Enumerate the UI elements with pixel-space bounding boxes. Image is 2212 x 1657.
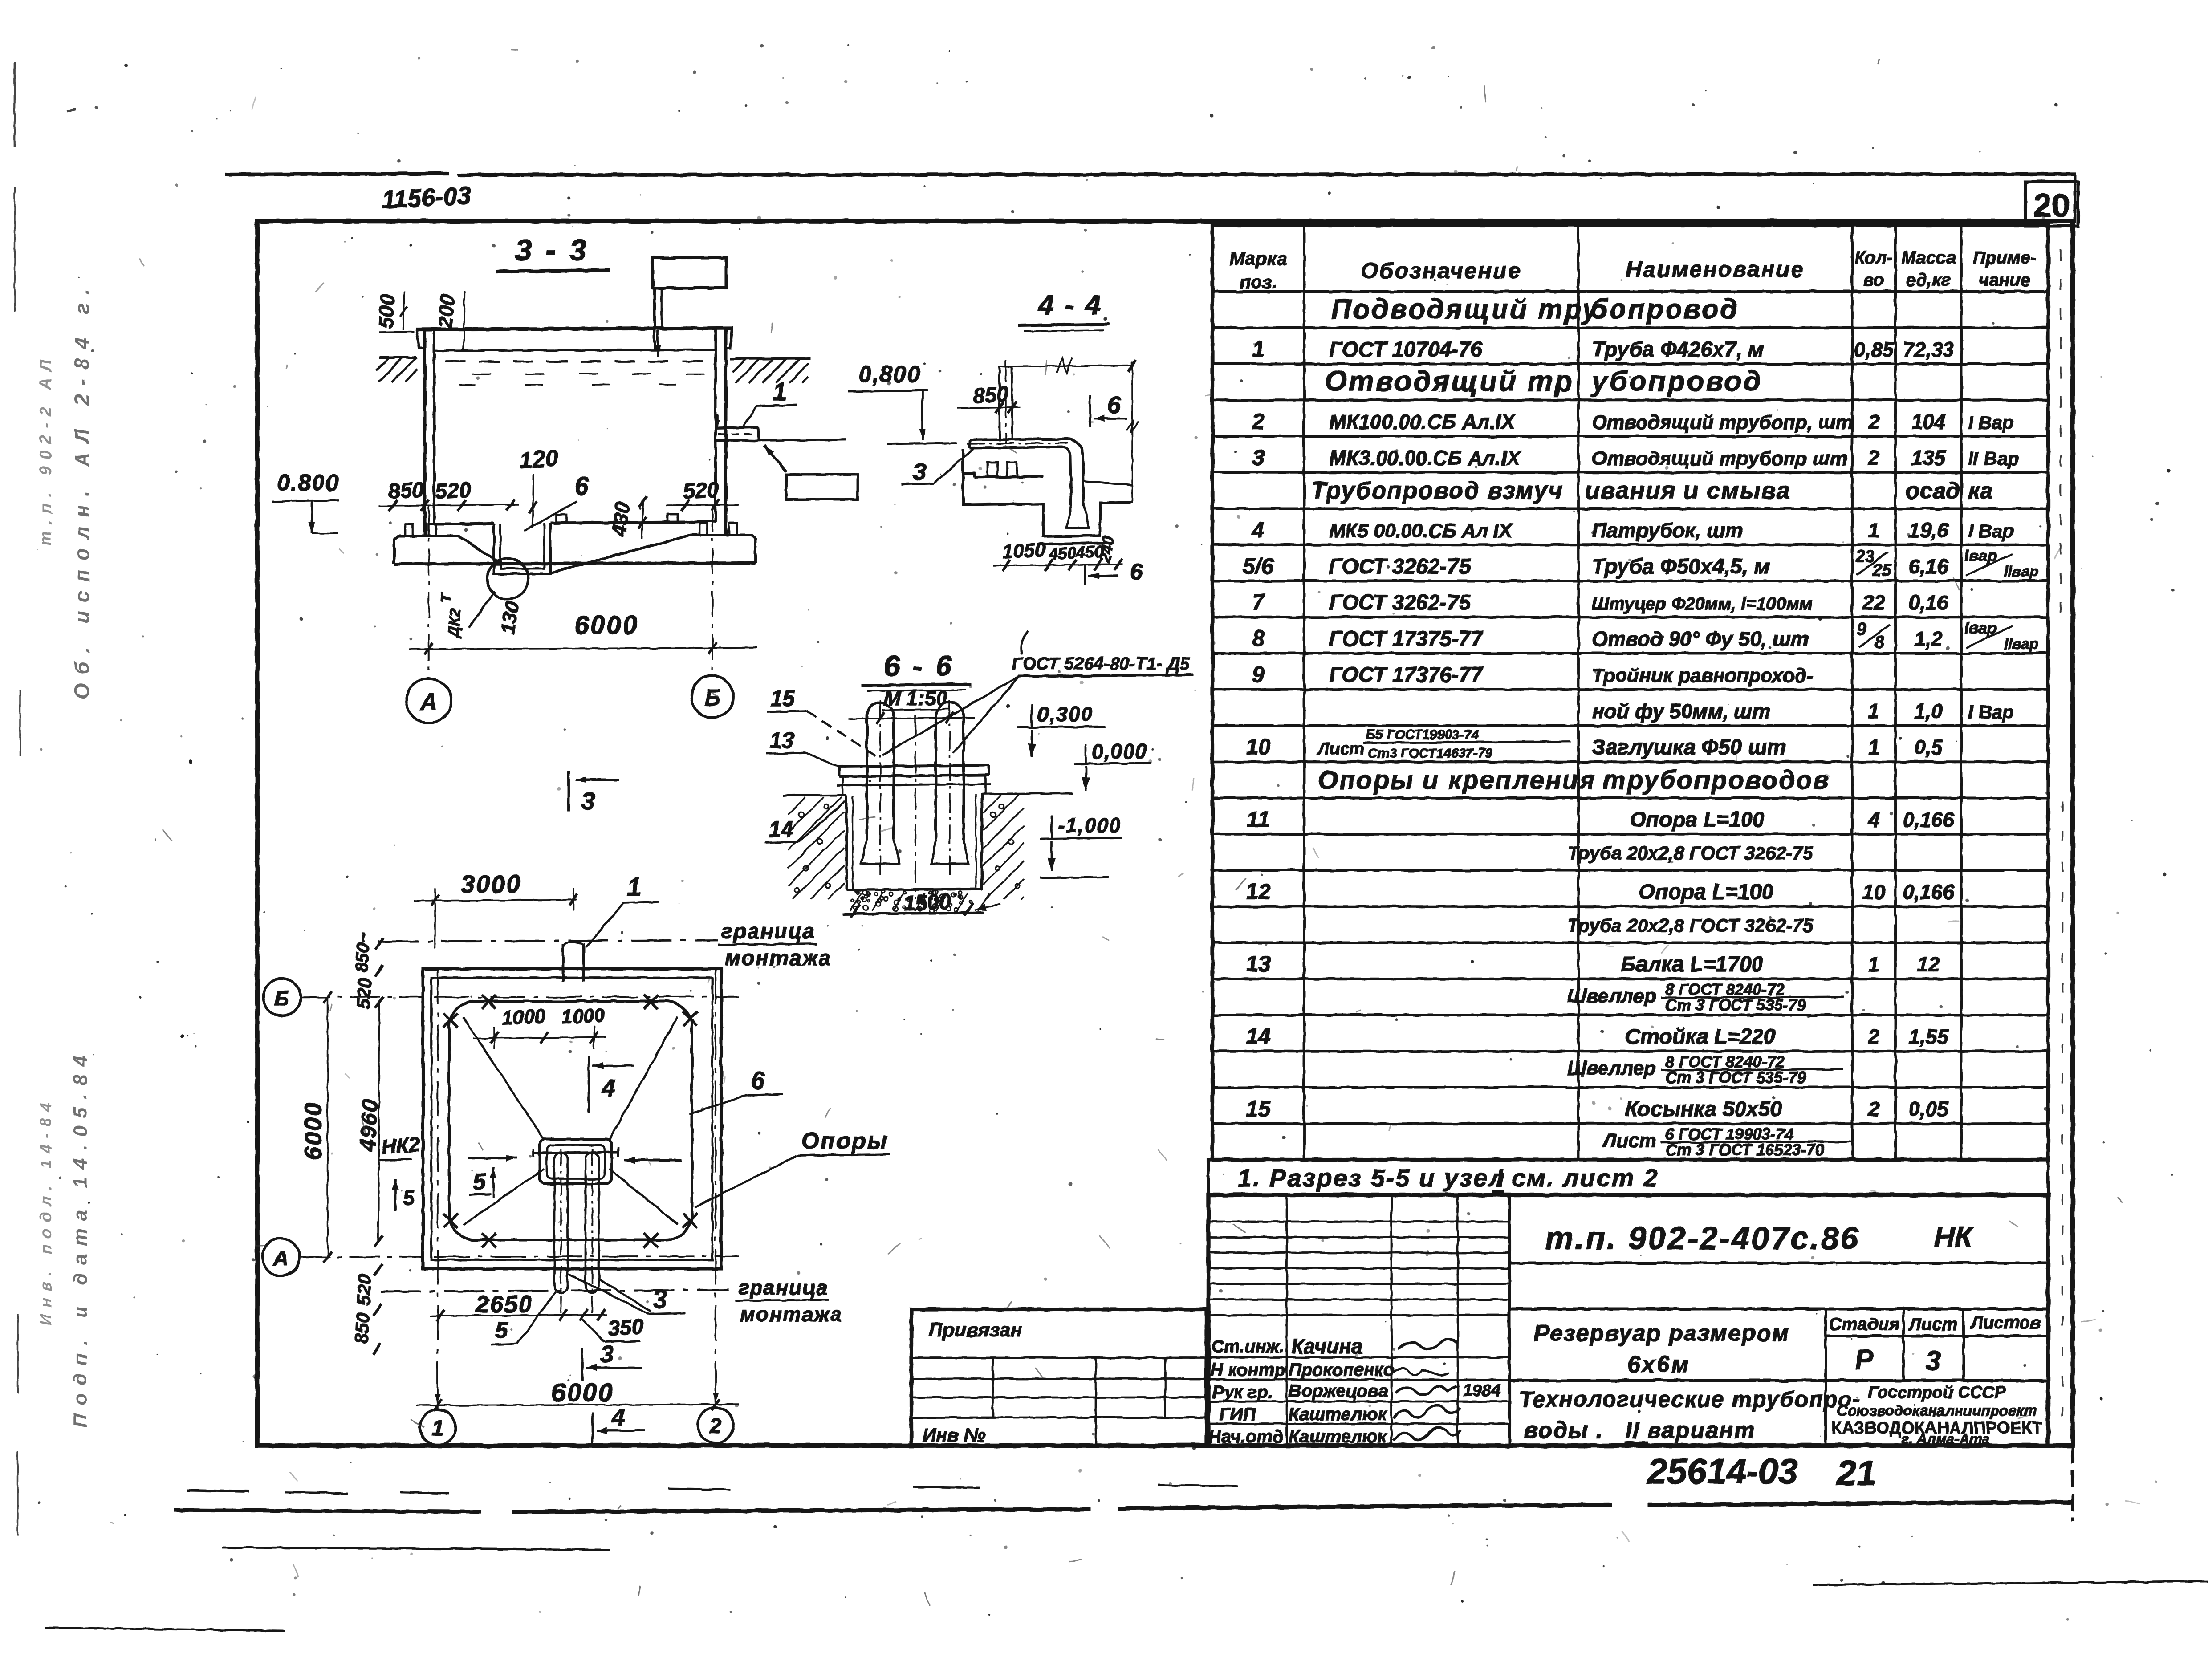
- plan leaders 3 bottom right: [569, 1274, 686, 1314]
- right frame extension: [2071, 1446, 2074, 1522]
- section 4-4 pipe bell in pit: [1067, 505, 1089, 528]
- svg-text:3: 3: [913, 459, 926, 485]
- svg-text:850: 850: [972, 382, 1009, 408]
- section 3-3 dim 130: [496, 600, 524, 636]
- section 6-6 leader 15: [767, 686, 877, 757]
- svg-text:поз.: поз.: [1240, 272, 1277, 292]
- svg-text:8: 8: [1252, 626, 1265, 651]
- svg-text:осад: осад: [1906, 478, 1960, 504]
- svg-text:Масса: Масса: [1901, 248, 1956, 268]
- plan section marker 4 top: [589, 1056, 634, 1113]
- plan left grid bubble B: [263, 979, 301, 1016]
- section 3-3 floor support marks: [557, 514, 678, 523]
- svg-text:0,85: 0,85: [1854, 338, 1895, 361]
- svg-text:Отвод 90° Фу 50, шт: Отвод 90° Фу 50, шт: [1592, 627, 1809, 650]
- svg-text:9: 9: [1857, 619, 1867, 639]
- right edge upper connector: [2074, 175, 2076, 223]
- svg-text:т.п. 902-2 АЛ: т.п. 902-2 АЛ: [37, 353, 55, 546]
- svg-text:МК100.00.СБ Ал.IX: МК100.00.СБ Ал.IX: [1329, 410, 1516, 433]
- section 3-3 ground line right: [730, 358, 810, 383]
- svg-text:1050: 1050: [1002, 539, 1047, 563]
- plan nk2 marker: [379, 1133, 421, 1211]
- parts table grid: [1212, 225, 2048, 1160]
- table group heading podvodyashchiy truboprovod: [1331, 294, 1739, 325]
- section 6-6 leader 13: [766, 728, 841, 768]
- parts table header: [1229, 248, 2036, 292]
- plan leader 6: [689, 1066, 783, 1114]
- table row 1 gost 10704-76: [1252, 337, 1954, 361]
- section 4-4 wall teeth: [963, 450, 1043, 477]
- plan left dim 4960: [355, 997, 383, 1247]
- svg-text:1500: 1500: [903, 889, 952, 916]
- table row 15 kosynka: [1246, 1096, 1949, 1121]
- svg-text:6: 6: [1130, 559, 1143, 585]
- svg-text:Технологические трубопро-: Технологические трубопро-: [1519, 1387, 1861, 1412]
- svg-text:МК5 00.00.СБ Ал IX: МК5 00.00.СБ Ал IX: [1329, 520, 1513, 542]
- svg-text:А: А: [419, 689, 437, 715]
- section 6-6 gost weld label: [1012, 631, 1193, 676]
- stadiya list listov header: [1826, 1309, 2048, 1381]
- doc number 1156-03: [381, 181, 472, 214]
- svg-text:1,55: 1,55: [1908, 1025, 1949, 1048]
- svg-text:25614-03: 25614-03: [1647, 1451, 1798, 1491]
- svg-text:1: 1: [1868, 736, 1880, 759]
- svg-text:200: 200: [433, 293, 459, 329]
- plan grid bubble 1: [420, 1409, 455, 1445]
- table group heading truboprovod vzmuchivaniya: [1311, 477, 1993, 504]
- svg-text:Наименование: Наименование: [1626, 257, 1805, 282]
- svg-text:Труба 20х2,8 ГОСТ 3262-75: Труба 20х2,8 ГОСТ 3262-75: [1567, 842, 1814, 863]
- svg-text:Каштелюк: Каштелюк: [1289, 1405, 1387, 1424]
- plan axis lines: [299, 969, 739, 1409]
- section 3-3 dkd mark: [437, 591, 495, 639]
- section 6-6 soil hatch left: [788, 797, 844, 899]
- section 4-4 dims bottom: [993, 535, 1123, 571]
- svg-text:12: 12: [1917, 953, 1940, 976]
- svg-text:3: 3: [1252, 445, 1265, 470]
- plan leader 5 bottom: [491, 1292, 556, 1344]
- svg-text:чание: чание: [1979, 270, 2030, 290]
- svg-text:0,166: 0,166: [1903, 881, 1954, 904]
- svg-text:6000: 6000: [574, 611, 639, 640]
- svg-text:Рук гр.: Рук гр.: [1212, 1382, 1273, 1402]
- section 3-3 right underside slope: [550, 535, 690, 573]
- section 4-4 riser pipe: [1000, 360, 1012, 443]
- svg-text:Ст3 ГОСТ14637-79: Ст3 ГОСТ14637-79: [1368, 746, 1493, 761]
- svg-text:850~: 850~: [352, 932, 374, 973]
- svg-text:Трубопровод взмуч: Трубопровод взмуч: [1311, 477, 1563, 504]
- svg-text:Лист: Лист: [1317, 740, 1364, 759]
- section 3-3 inlet arrow: [654, 330, 661, 356]
- svg-text:Опора L=100: Опора L=100: [1630, 808, 1765, 832]
- section 3-3 right footing: [690, 523, 756, 563]
- svg-text:13: 13: [1246, 951, 1271, 976]
- svg-text:I: I: [1496, 1164, 1504, 1192]
- plan top pipe stub: [563, 942, 584, 982]
- section 3-3 outlet pipe poz1: [716, 427, 760, 441]
- svg-text:1984: 1984: [1463, 1381, 1501, 1400]
- table row 13 shveller detail: [1567, 980, 1843, 1014]
- section 6-6 elevation 0.000: [1074, 740, 1151, 791]
- svg-text:430: 430: [607, 500, 634, 538]
- svg-text:4: 4: [1252, 517, 1265, 542]
- section 3-3 dim 6000: [410, 611, 757, 654]
- svg-text:1: 1: [773, 378, 787, 406]
- svg-text:Каштелюк: Каштелюк: [1289, 1427, 1387, 1446]
- staff signature rows: [1208, 1334, 1509, 1446]
- plan arrow into sump right: [624, 1157, 681, 1163]
- svg-text:во: во: [1863, 270, 1884, 290]
- section 4-4 wall body and pit: [963, 473, 1131, 544]
- svg-text:Лист: Лист: [1907, 1315, 1958, 1334]
- svg-text:Отводящий тр: Отводящий тр: [1325, 365, 1574, 397]
- svg-text:Заглушка Ф50 шт: Заглушка Ф50 шт: [1592, 736, 1786, 759]
- svg-text:5: 5: [403, 1186, 415, 1209]
- svg-text:Б: Б: [704, 685, 721, 711]
- section 6-6 elevation 0.300: [1017, 703, 1105, 757]
- section 3-3 left footing: [394, 524, 459, 564]
- project name cell: [1509, 1320, 2048, 1381]
- svg-text:1000: 1000: [501, 1005, 546, 1029]
- svg-text:Ст.инж.: Ст.инж.: [1211, 1337, 1284, 1356]
- svg-text:Опоры и крепления: Опоры и крепления: [1318, 766, 1596, 795]
- svg-text:14: 14: [769, 817, 793, 842]
- section 6-6 center axis: [915, 715, 916, 899]
- plan outer square: [423, 969, 721, 1269]
- svg-text:г. Алма-Ата: г. Алма-Ата: [1902, 1431, 1990, 1447]
- svg-text:19,6: 19,6: [1908, 519, 1948, 542]
- svg-text:Качина: Качина: [1291, 1335, 1362, 1358]
- svg-text:1: 1: [1868, 699, 1880, 723]
- table row 8 otvod 90: [1252, 618, 2039, 652]
- plan grid bubble 2: [698, 1407, 733, 1443]
- svg-text:IIвар: IIвар: [2004, 636, 2039, 653]
- plan marker 5 inner: [468, 1155, 517, 1198]
- section 3-3 left underside slope: [459, 536, 500, 563]
- section 6-6 elevation -1.000: [1040, 814, 1122, 878]
- svg-text:21: 21: [1836, 1453, 1876, 1493]
- svg-text:М 1:50: М 1:50: [883, 686, 947, 710]
- svg-text:МК3.00.00.СБ Ал.IX: МК3.00.00.СБ Ал.IX: [1329, 447, 1521, 470]
- table row 14 shveller detail: [1567, 1052, 1843, 1086]
- plan opory label: [695, 1128, 890, 1207]
- svg-text:8: 8: [1875, 633, 1885, 652]
- plan left dim 850 520 bottom: [351, 1264, 382, 1355]
- section 3-3 dim 520 right: [666, 478, 739, 511]
- svg-text:убопровод: убопровод: [1590, 365, 1763, 397]
- table row 12 opora: [1246, 879, 1954, 904]
- svg-text:Тройник равнопроход-: Тройник равнопроход-: [1592, 665, 1813, 686]
- title block outline: [1208, 1195, 2048, 1446]
- svg-text:Стойка L=220: Стойка L=220: [1625, 1025, 1776, 1049]
- svg-text:5/6: 5/6: [1243, 553, 1274, 578]
- svg-text:монтажа: монтажа: [725, 946, 832, 970]
- svg-text:2: 2: [1252, 409, 1265, 434]
- section 6-6 soil hatch right: [983, 795, 1024, 899]
- svg-text:ГИП: ГИП: [1219, 1405, 1256, 1424]
- svg-text:2: 2: [709, 1414, 722, 1438]
- section 6-6 scale: [882, 686, 951, 710]
- svg-text:Стадия: Стадия: [1829, 1315, 1899, 1334]
- svg-text:120: 120: [519, 445, 559, 474]
- plan leader 1: [586, 873, 659, 947]
- plan down pipes: [554, 1149, 599, 1316]
- section 3-3 dim 430: [607, 496, 647, 539]
- section 6-6 pipe 1: [861, 700, 899, 875]
- svg-text:0.800: 0.800: [277, 470, 339, 496]
- sheet title cell: [1519, 1387, 1861, 1443]
- svg-text:1000: 1000: [561, 1004, 606, 1028]
- svg-text:1: 1: [1868, 953, 1880, 976]
- section 4-4 marker 6 top: [1090, 392, 1127, 427]
- svg-text:Нач.отд: Нач.отд: [1208, 1427, 1283, 1446]
- table row 14 stoyka: [1246, 1024, 1949, 1049]
- svg-text:ДК2: ДК2: [445, 608, 464, 639]
- section 3-3 ground line left: [376, 357, 418, 382]
- svg-text:Союзводоканалниипроект: Союзводоканалниипроект: [1837, 1402, 2037, 1419]
- svg-text:Отводящий трубопр шт: Отводящий трубопр шт: [1592, 448, 1847, 470]
- plan sump beam 5-5: [533, 1148, 618, 1157]
- svg-text:IIвар: IIвар: [2004, 563, 2039, 580]
- svg-text:4960: 4960: [355, 1098, 382, 1153]
- table row 2 mk1: [1252, 409, 2014, 434]
- section 4-4 title: [1018, 290, 1109, 331]
- table row 9 troynik line1: [1252, 662, 1813, 687]
- svg-text:3: 3: [653, 1285, 667, 1314]
- svg-text:4: 4: [602, 1075, 615, 1101]
- svg-text:2: 2: [1868, 1025, 1880, 1048]
- section 3-3 wall top line: [416, 328, 733, 329]
- svg-text:850: 850: [351, 1312, 374, 1344]
- svg-text:2650: 2650: [475, 1291, 533, 1318]
- svg-text:Iвар: Iвар: [1964, 546, 1997, 565]
- svg-text:ной фу 50мм, шт: ной фу 50мм, шт: [1592, 699, 1770, 723]
- svg-text:520: 520: [353, 1274, 375, 1306]
- plan left dim 520 850 top: [352, 932, 383, 1009]
- svg-text:3: 3: [581, 787, 595, 815]
- svg-text:Лист: Лист: [1602, 1129, 1657, 1151]
- svg-text:520: 520: [353, 977, 375, 1009]
- sheet top edge line: [225, 174, 2076, 175]
- section 3-3 outlet channel box: [786, 475, 858, 500]
- section 4-4 dim 850: [957, 382, 1021, 414]
- svg-text:Б5 ГОСТ19903-74: Б5 ГОСТ19903-74: [1366, 727, 1479, 742]
- section 6-6 top dim line: [849, 712, 975, 724]
- svg-text:ГОСТ 3262-75: ГОСТ 3262-75: [1329, 591, 1471, 615]
- section 6-6 pit walls: [846, 794, 982, 890]
- note razrez 5-5: [1238, 1164, 1659, 1192]
- plan dim 2650: [430, 1291, 607, 1321]
- section 4-4 right extension line: [1126, 362, 1138, 503]
- svg-text:Приме-: Приме-: [1973, 248, 2037, 268]
- svg-text:4 - 4: 4 - 4: [1037, 290, 1102, 321]
- svg-text:1,0: 1,0: [1914, 699, 1943, 723]
- section 3-3 base line: [394, 563, 756, 564]
- right margin inner dashes: [2061, 249, 2062, 1425]
- svg-text:I Вар: I Вар: [1968, 412, 2014, 433]
- svg-text:Труба Ф50х4,5, м: Труба Ф50х4,5, м: [1592, 555, 1770, 578]
- svg-text:Штуцер Ф20мм, l=100мм: Штуцер Ф20мм, l=100мм: [1592, 594, 1813, 614]
- svg-text:13: 13: [769, 728, 794, 753]
- table group heading otvodyashchiy truboprovod: [1325, 365, 1763, 397]
- svg-text:Косынка 50х50: Косынка 50х50: [1625, 1097, 1782, 1121]
- svg-text:6х6м: 6х6м: [1627, 1352, 1690, 1377]
- svg-text:Р: Р: [1855, 1344, 1874, 1375]
- svg-text:ГОСТ 17375-77: ГОСТ 17375-77: [1329, 627, 1484, 651]
- svg-text:0,5: 0,5: [1914, 736, 1943, 759]
- svg-text:9: 9: [1252, 662, 1265, 687]
- svg-text:Ст 3 ГОСТ 535-79: Ст 3 ГОСТ 535-79: [1665, 996, 1806, 1014]
- plan section marker 4 bottom: [593, 1404, 645, 1443]
- svg-text:Об. исполн. АЛ 2-84 г.: Об. исполн. АЛ 2-84 г.: [70, 280, 94, 699]
- section 3-3 left wall: [425, 329, 434, 536]
- plan left dim 6000: [300, 991, 332, 1263]
- svg-text:бопровод: бопровод: [1590, 294, 1739, 325]
- plan leader 350: [582, 1315, 644, 1342]
- section 3-3 right wall: [716, 328, 726, 535]
- page number box 20: [2025, 182, 2078, 226]
- svg-text:6000: 6000: [551, 1378, 614, 1407]
- svg-text:А: А: [273, 1247, 288, 1270]
- section 6-6 bottom fill: [843, 889, 989, 914]
- svg-text:3 - 3: 3 - 3: [515, 233, 589, 267]
- section 4-4 right ledge: [1082, 481, 1132, 503]
- plan section marker 3 bottom: [582, 1341, 642, 1381]
- section 4-4 pipe run and elbow: [967, 439, 1084, 505]
- section 4-4 marker 6 bottom: [1085, 559, 1143, 585]
- svg-text:Подп. и дата 14.05.84: Подп. и дата 14.05.84: [69, 1048, 91, 1428]
- section 3-3 water surface line: [434, 350, 716, 351]
- svg-text:Ст 3 ГОСТ 16523-70: Ст 3 ГОСТ 16523-70: [1665, 1141, 1824, 1159]
- svg-text:трубопроводов: трубопроводов: [1603, 766, 1830, 795]
- svg-text:ГОСТ 17376-77: ГОСТ 17376-77: [1329, 663, 1484, 687]
- svg-text:Воржецова: Воржецова: [1289, 1381, 1388, 1401]
- svg-text:НК: НК: [1934, 1221, 1974, 1253]
- svg-text:Отводящий трубопр, шт: Отводящий трубопр, шт: [1592, 411, 1853, 433]
- plan granitsa montazha top: [718, 920, 832, 970]
- svg-text:см. лист 2: см. лист 2: [1512, 1164, 1659, 1192]
- section 3-3 water level dashes: [445, 361, 704, 385]
- svg-text:1156-03: 1156-03: [381, 181, 472, 214]
- svg-text:Госстрой СССР: Госстрой СССР: [1868, 1383, 2006, 1402]
- section 6-6 cap slab: [837, 775, 991, 795]
- plan central sump: [540, 1139, 612, 1184]
- bottom left stray line: [45, 1628, 285, 1631]
- svg-text:граница: граница: [738, 1276, 829, 1299]
- plan opora x marks: [443, 995, 697, 1247]
- svg-text:3: 3: [1926, 1346, 1941, 1377]
- section 4-4 elevation 0.800: [849, 361, 956, 444]
- svg-text:1: 1: [1252, 337, 1265, 361]
- svg-text:15: 15: [770, 686, 796, 711]
- svg-text:Iвар: Iвар: [1964, 618, 1997, 637]
- svg-text:72,33: 72,33: [1903, 338, 1954, 361]
- svg-text:II вариант: II вариант: [1625, 1417, 1756, 1443]
- svg-text:Труба Ф426х7, м: Труба Ф426х7, м: [1592, 338, 1764, 361]
- svg-text:1,2: 1,2: [1914, 627, 1943, 650]
- plan rounded square: [449, 1001, 692, 1240]
- svg-text:ГОСТ 5264-80-Т1- Д5: ГОСТ 5264-80-Т1- Д5: [1012, 654, 1190, 674]
- svg-text:3: 3: [600, 1341, 614, 1368]
- section 3-3 outlet arrow up: [730, 440, 846, 472]
- svg-text:ГОСТ 3262-75: ГОСТ 3262-75: [1329, 555, 1471, 578]
- section 3-3 dim 120: [519, 445, 559, 528]
- svg-text:1: 1: [1868, 519, 1880, 542]
- section 3-3 tank floor: [434, 521, 716, 524]
- plan left grid bubble A: [262, 1239, 300, 1276]
- svg-text:1: 1: [432, 1417, 444, 1440]
- plan granitsa montazha bottom: [381, 1276, 842, 1326]
- section 6-6 weld leaders: [882, 676, 1019, 755]
- section 3-3 left wall parapet cap: [417, 329, 425, 348]
- table group heading opory i krepleniya: [1318, 766, 1830, 795]
- section 3-3 outlet leader 1: [743, 378, 797, 428]
- section 3-3 dim 850 520 left: [378, 478, 519, 511]
- svg-text:ед,кг: ед,кг: [1906, 270, 1951, 290]
- svg-text:25: 25: [1872, 561, 1891, 580]
- svg-text:I Вар: I Вар: [1968, 701, 2014, 722]
- drawing frame: [257, 221, 2073, 1446]
- svg-text:Кол-: Кол-: [1854, 248, 1893, 268]
- svg-text:Инв №: Инв №: [923, 1425, 985, 1446]
- svg-text:2: 2: [1868, 447, 1880, 470]
- svg-text:135: 135: [1911, 447, 1946, 470]
- svg-text:Труба 20х2,8 ГОСТ 3262-75: Труба 20х2,8 ГОСТ 3262-75: [1567, 915, 1814, 936]
- section 4-4 leader 3: [901, 449, 973, 485]
- svg-text:6,16: 6,16: [1908, 555, 1948, 578]
- section 3-3 pit: [494, 523, 550, 574]
- left margin rotated stamp text upper: [37, 280, 94, 699]
- svg-text:II Вар: II Вар: [1968, 448, 2019, 469]
- svg-text:500: 500: [374, 293, 399, 329]
- svg-text:Ст 3 ГОСТ 535-79: Ст 3 ГОСТ 535-79: [1665, 1068, 1806, 1087]
- section 3-3 grid bubble A: [407, 678, 451, 723]
- svg-text:5: 5: [495, 1318, 508, 1344]
- svg-text:ГОСТ 10704-76: ГОСТ 10704-76: [1329, 338, 1483, 361]
- table row 13 balka: [1246, 951, 1940, 976]
- section 3-3 leader 6: [525, 472, 589, 531]
- svg-text:-1,000: -1,000: [1058, 814, 1121, 837]
- section 4-4 top dim line with break: [1000, 358, 1136, 373]
- signature squiggles: [1394, 1339, 1461, 1441]
- section 6-6 ground line: [784, 793, 1073, 796]
- svg-text:350: 350: [607, 1315, 644, 1340]
- table row 12 truba detail: [1567, 915, 1814, 936]
- section 3-3 right wall parapet cap: [726, 328, 732, 348]
- section 3-3 title: [496, 233, 610, 272]
- svg-text:11: 11: [1247, 807, 1270, 832]
- svg-text:850: 850: [388, 478, 425, 504]
- svg-text:Инв. подл. 14-84: Инв. подл. 14-84: [37, 1097, 55, 1325]
- svg-text:6: 6: [1107, 392, 1121, 418]
- svg-text:12: 12: [1246, 879, 1271, 904]
- svg-text:Листов: Листов: [1969, 1313, 2041, 1332]
- svg-text:10: 10: [1246, 735, 1271, 759]
- svg-text:104: 104: [1911, 410, 1946, 433]
- svg-text:граница: граница: [721, 920, 815, 943]
- svg-text:I Вар: I Вар: [1968, 520, 2014, 541]
- svg-text:14: 14: [1246, 1024, 1271, 1049]
- svg-text:Патрубок, шт: Патрубок, шт: [1592, 519, 1743, 542]
- svg-text:20: 20: [2033, 187, 2070, 224]
- section 3-3 inlet pipe from flag box: [655, 288, 662, 350]
- tp doc number cell: [1509, 1221, 2048, 1309]
- revision grid small rows: [1208, 1195, 1509, 1334]
- svg-text:3000: 3000: [461, 870, 522, 898]
- section 3-3 dim 200: [433, 292, 464, 350]
- svg-text:10: 10: [1862, 881, 1886, 904]
- svg-text:ка: ка: [1968, 478, 1993, 504]
